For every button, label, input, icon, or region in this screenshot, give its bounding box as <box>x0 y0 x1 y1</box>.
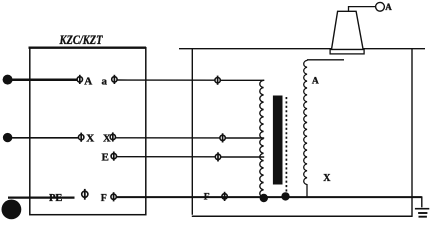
terminal dot IN2 <box>3 133 12 142</box>
terminal phi A <box>77 75 82 84</box>
svg-text:E: E <box>102 151 109 163</box>
junction dot core earth <box>281 192 289 200</box>
wire row E to tank <box>117 156 216 158</box>
terminal phi a <box>112 75 117 84</box>
terminal phi E <box>111 152 116 161</box>
secondary winding S1 <box>304 60 308 197</box>
wire secondary top <box>307 59 344 61</box>
tank outline <box>179 49 425 217</box>
terminal phi E tank-side <box>215 152 220 161</box>
wire PE <box>8 196 75 198</box>
primary winding P1 <box>260 80 264 198</box>
svg-text:PE: PE <box>49 193 62 204</box>
terminal phi A tank-side <box>215 76 220 85</box>
wire row A to tank <box>117 79 215 81</box>
wire row F bottom bus <box>116 196 421 198</box>
terminal dot IN1 <box>3 75 13 85</box>
svg-text:KZC/KZT: KZC/KZT <box>59 32 104 47</box>
svg-text:X: X <box>86 132 94 144</box>
terminal phi PE <box>82 189 88 200</box>
wire row X to winding tap <box>225 137 264 139</box>
core bar <box>273 96 283 185</box>
svg-text:F: F <box>204 193 210 203</box>
core earth dotted line <box>285 97 287 193</box>
wire row E to winding tap <box>221 156 265 158</box>
svg-text:X: X <box>323 173 331 184</box>
svg-text:A: A <box>312 76 319 86</box>
terminal phi F <box>111 192 116 201</box>
ground stub wire <box>412 197 422 207</box>
wire row A to winding top <box>220 79 264 81</box>
ammeter A1 <box>376 2 385 11</box>
svg-text:A: A <box>84 76 92 88</box>
svg-text:a: a <box>102 76 108 88</box>
terminal phi X tank-side <box>220 133 225 142</box>
terminal phi X <box>79 133 84 142</box>
wire row X input <box>7 137 79 139</box>
svg-text:A: A <box>385 2 392 12</box>
terminal phi F tank-side <box>222 192 227 201</box>
svg-text:F: F <box>101 193 107 204</box>
ground symbol <box>415 209 429 217</box>
control box KZC/KZT outline <box>29 48 147 215</box>
wire bushing to ammeter <box>349 7 376 12</box>
terminal dot PE (earth input, large) <box>2 200 22 220</box>
junction dot winding bottom <box>260 194 268 202</box>
terminal phi x <box>110 132 115 141</box>
bushing flange <box>330 49 364 54</box>
bushing body <box>332 11 364 49</box>
wire row A input <box>7 78 77 81</box>
wire row X to tank <box>116 137 221 139</box>
